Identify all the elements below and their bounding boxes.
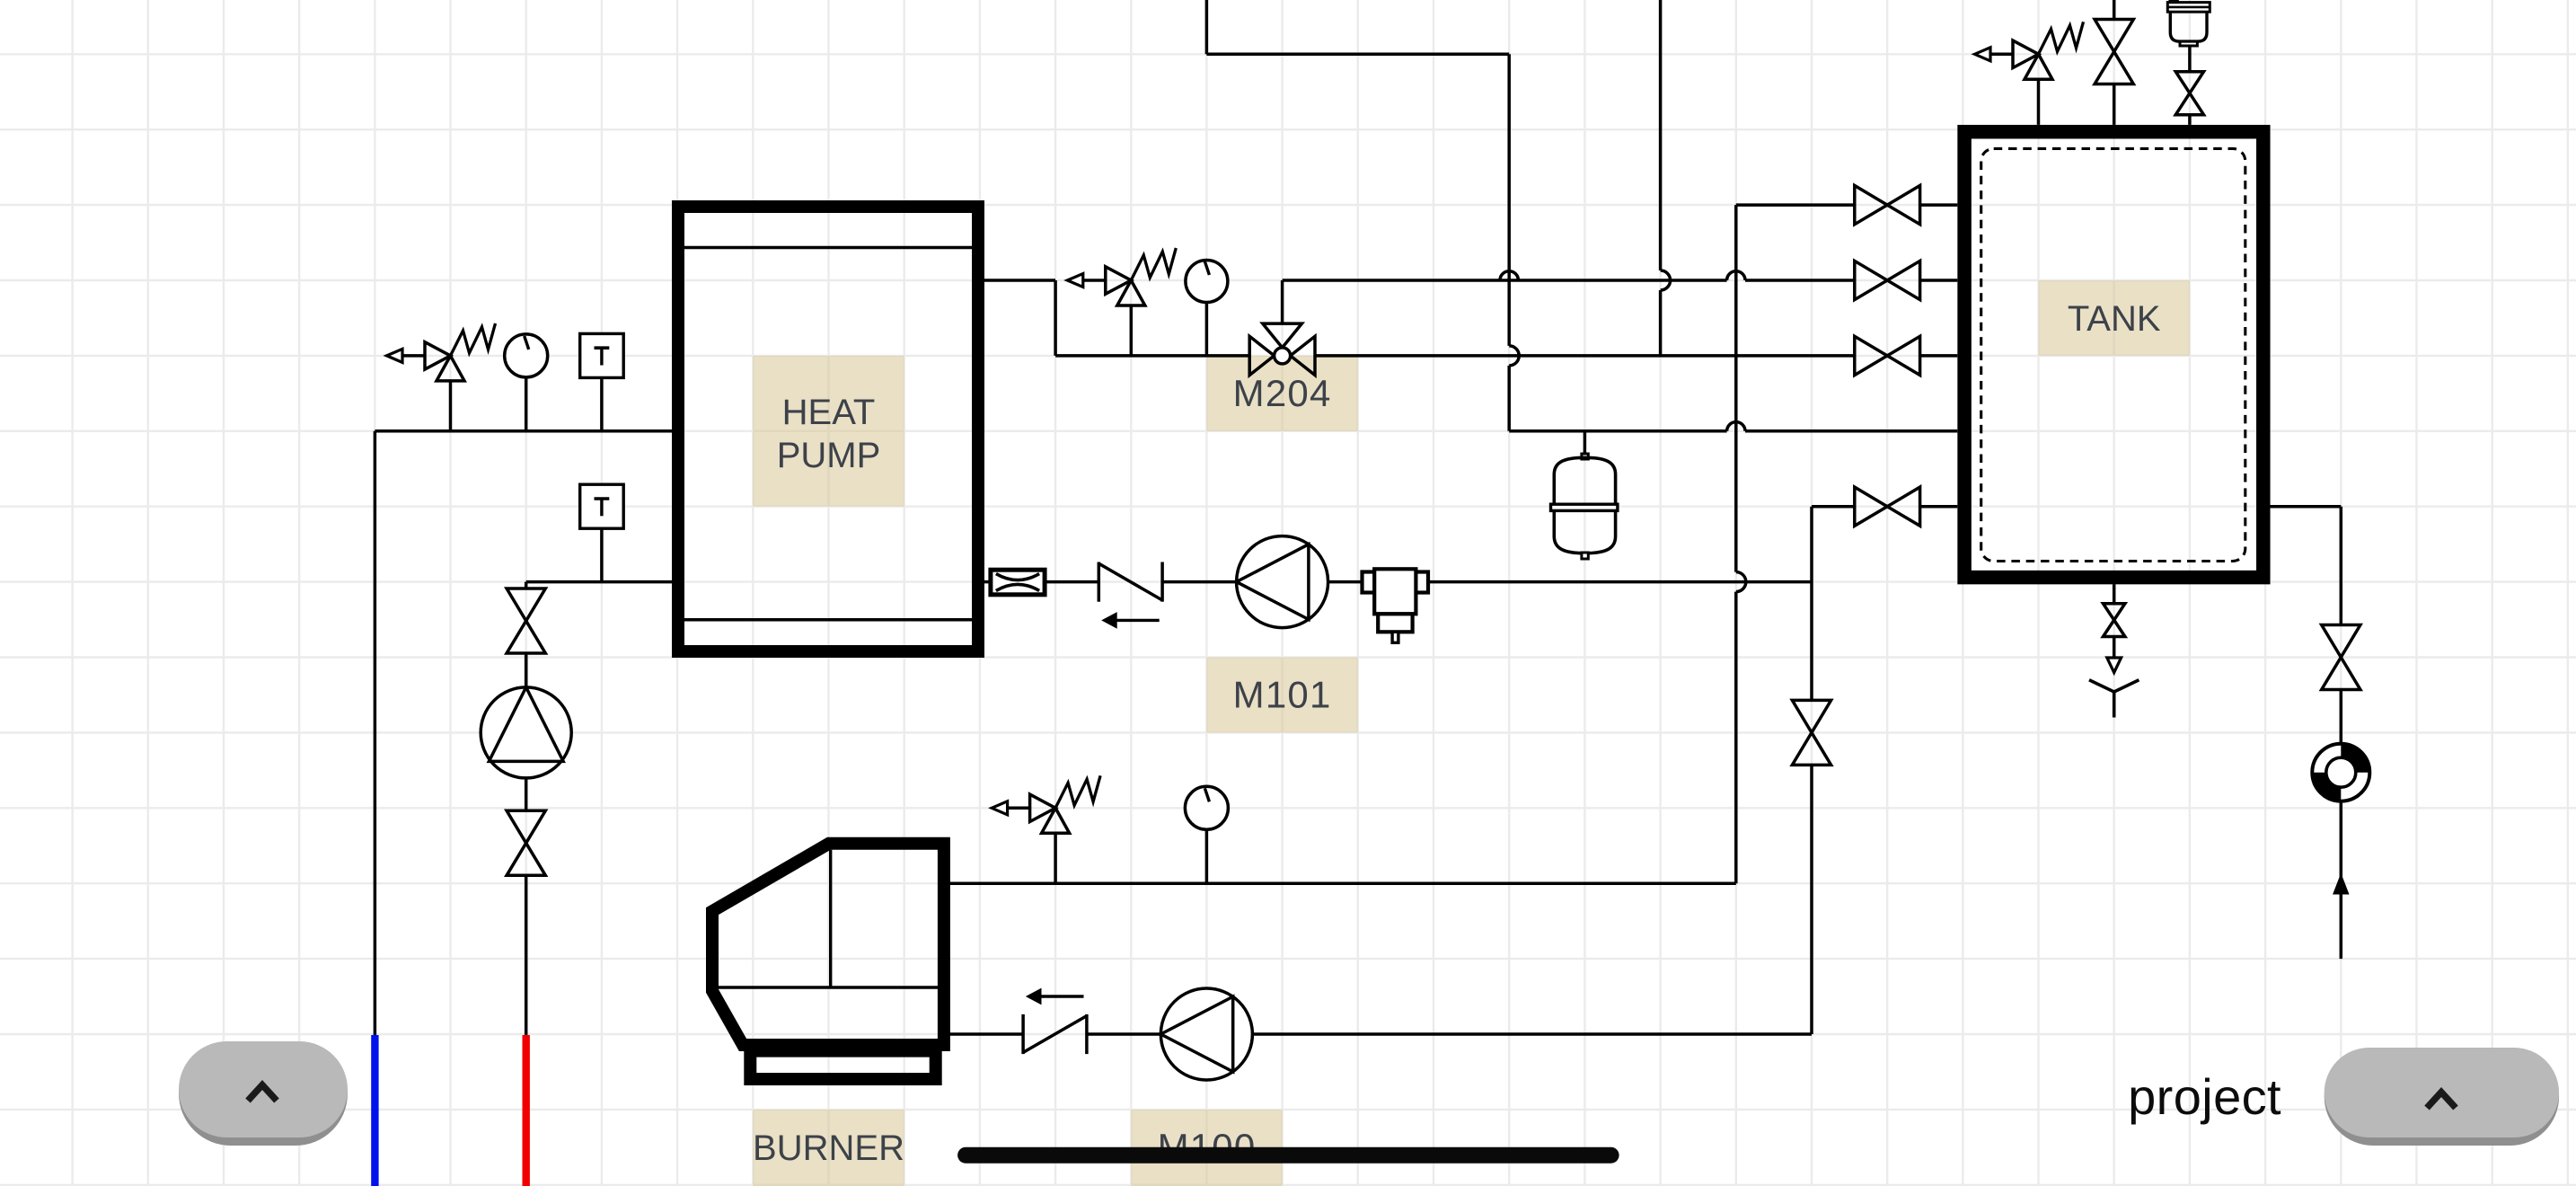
blue pipe bbox=[371, 1035, 378, 1186]
wire burner return line bbox=[944, 1032, 1023, 1036]
right chevron button bbox=[2325, 1048, 2559, 1146]
check valve CV1 on M101 line bbox=[1098, 562, 1101, 602]
svg-text:HEAT: HEAT bbox=[782, 393, 876, 432]
safety valve SV3 on burner supply bbox=[992, 801, 1008, 815]
wire row B into tank bbox=[1920, 354, 1958, 358]
pump M101 bbox=[1237, 536, 1328, 628]
wire M204 row B right segment bbox=[1315, 354, 1855, 358]
burner stand bbox=[750, 1051, 935, 1079]
tank outline bbox=[1964, 132, 2263, 578]
upward flow arrow on right riser bbox=[2333, 874, 2349, 894]
svg-text:M101: M101 bbox=[1233, 674, 1332, 716]
flow meter on right riser bbox=[2312, 744, 2369, 801]
wire top feed horizontal bbox=[1206, 53, 1509, 57]
wire left column riser segments bbox=[525, 582, 528, 589]
wire air vent stem bbox=[2188, 46, 2192, 72]
svg-text:TANK: TANK bbox=[2068, 299, 2161, 339]
svg-text:M204: M204 bbox=[1233, 372, 1332, 414]
svg-text:PUMP: PUMP bbox=[777, 436, 881, 475]
wire M101 line from heat pump to flex connector bbox=[984, 580, 991, 584]
gate valve on V4 riser bbox=[1792, 700, 1831, 732]
wire heat pump top-right outlet bbox=[984, 279, 1055, 282]
gate valve on left column upper bbox=[507, 589, 545, 621]
tank inlet gate valve row 5 bbox=[1855, 487, 1887, 526]
safety valve SV2 near M204 bbox=[1067, 274, 1083, 288]
wire tank row 1 bbox=[1736, 203, 1855, 207]
tank top gate valve bbox=[2095, 20, 2133, 52]
wire M101 line check valve to V4 bbox=[1163, 580, 1812, 584]
gauge G3 on burner supply bbox=[1185, 786, 1228, 829]
gate valve on right riser bbox=[2322, 625, 2360, 658]
air vent on tank top bbox=[2170, 0, 2178, 3]
pump M100 bbox=[1160, 988, 1252, 1080]
wire left riser to blue pipe bbox=[374, 431, 377, 1035]
wire tank top valve riser bbox=[2113, 0, 2116, 20]
wire top feed riser at x15 bbox=[1205, 0, 1209, 54]
wire burner supply line bbox=[944, 881, 1736, 885]
thermometer box T2 bbox=[600, 527, 604, 582]
wire expansion vessel stem bbox=[1584, 431, 1587, 456]
wire M204 row B left segment bbox=[1055, 354, 1249, 358]
check valve CV2 on burner return bbox=[1021, 1014, 1025, 1054]
heat pump inner top line bbox=[684, 246, 972, 250]
gate valve on left column lower bbox=[507, 810, 545, 843]
expansion vessel bbox=[1582, 454, 1588, 459]
burner inner vertical line bbox=[829, 850, 832, 987]
left chevron button bbox=[179, 1041, 348, 1146]
label HEAT PUMP bbox=[753, 356, 904, 507]
drain Y symbol bbox=[2089, 680, 2114, 692]
gauge G1 on heat pump supply bbox=[505, 334, 548, 377]
pump P1 left column bbox=[481, 687, 571, 778]
heat pump inner bottom line bbox=[684, 618, 972, 622]
label M101 bbox=[1206, 658, 1357, 733]
wire V4 riser bbox=[1810, 507, 1813, 701]
wire heat pump top-left supply bbox=[375, 429, 672, 433]
small gate valve under air vent bbox=[2175, 72, 2203, 93]
label M204 bbox=[1206, 356, 1357, 431]
hop arc over V1 on row A bbox=[1500, 271, 1518, 280]
wire tank row 5 from V4 corner bbox=[1812, 505, 1855, 509]
wire V1 riser with hops bbox=[1507, 54, 1511, 346]
burner outline bbox=[712, 844, 944, 1045]
wire heat pump bottom-left bbox=[526, 580, 672, 584]
tank inlet gate valve row 1 bbox=[1855, 186, 1887, 225]
svg-text:project: project bbox=[2128, 1068, 2281, 1125]
thermometer box T1 bbox=[600, 376, 604, 431]
wire V3 riser with hop at M101 line bbox=[1734, 205, 1738, 571]
label M100 bbox=[1131, 1110, 1282, 1186]
safety valve SV1 on heat pump supply bbox=[387, 349, 403, 362]
wire V2 riser with hop at row A bbox=[1659, 0, 1663, 270]
label BURNER bbox=[753, 1110, 904, 1186]
tank inner dashed vessel bbox=[1981, 148, 2245, 561]
red pipe bbox=[523, 1035, 530, 1186]
tank inlet gate valve row 3 bbox=[1855, 336, 1887, 375]
label TANK bbox=[2039, 280, 2190, 356]
wire corner down to M204 row bbox=[1054, 280, 1057, 356]
wire tank right side outlet bbox=[2271, 505, 2342, 509]
wire row A from M204 riser toward tank with hop at V3 bbox=[1283, 279, 1727, 282]
svg-text:BURNER: BURNER bbox=[753, 1128, 904, 1168]
safety valve SV4 on tank top bbox=[1975, 48, 1991, 61]
wire right riser bbox=[2340, 507, 2343, 625]
heat pump outline bbox=[678, 207, 978, 651]
tank bottom drain valve bbox=[2104, 604, 2125, 620]
scroll bar bbox=[957, 1147, 1619, 1164]
filter after pump M101 bbox=[1363, 572, 1375, 593]
tank inlet gate valve row 2 bbox=[1855, 261, 1887, 299]
wire tank row 4 from V1 corner with hop at V3 bbox=[1509, 429, 1726, 433]
gauge G2 near M204 bbox=[1186, 261, 1228, 303]
burner inner horizontal line bbox=[719, 986, 938, 988]
wire tank bottom drain bbox=[2113, 584, 2116, 603]
three-way valve M204 bbox=[1281, 280, 1284, 323]
wire M101 line flex to check valve bbox=[1045, 580, 1099, 584]
wire row A into tank bbox=[1920, 279, 1958, 282]
flex connector at heat pump outlet bbox=[991, 570, 1045, 595]
drain open arrow bbox=[2107, 658, 2122, 673]
